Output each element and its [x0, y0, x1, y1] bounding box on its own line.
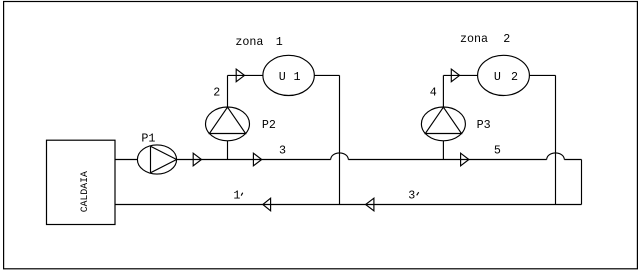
svg-text:U: U [279, 70, 286, 84]
svg-text:P3: P3 [477, 118, 491, 132]
svg-text:4: 4 [430, 85, 437, 99]
svg-text:P1: P1 [141, 131, 155, 145]
arrow zone2 [451, 69, 459, 82]
tick label 1prime [241, 193, 243, 196]
wire riser zone2 upper [442, 75, 444, 107]
svg-text:P2: P2 [262, 118, 276, 132]
bridge crossover 2 [547, 153, 565, 160]
svg-text:CALDAIA: CALDAIA [79, 171, 90, 212]
wire drop zone1 [339, 75, 341, 204]
svg-text:3: 3 [408, 189, 415, 203]
arrow supply 3 [461, 153, 469, 166]
wire zone2 top branch [443, 74, 477, 76]
svg-text:1: 1 [276, 35, 283, 49]
load U1 [263, 55, 314, 95]
wire return line [115, 204, 582, 206]
wire zone1 top branch [228, 74, 263, 76]
pump P2 [206, 107, 250, 141]
bridge crossover 1 [331, 153, 349, 160]
wire riser zone1 lower [227, 141, 229, 160]
svg-text:1: 1 [233, 188, 240, 202]
arrow zone1 [236, 69, 244, 82]
arrow return 2 [366, 198, 374, 211]
wire supply boiler to P1 [115, 159, 137, 161]
svg-text:3: 3 [279, 143, 286, 157]
svg-text:2: 2 [511, 70, 518, 84]
svg-text:U: U [494, 70, 501, 84]
wire right down segment [581, 160, 583, 205]
pump P1 [137, 145, 176, 174]
wire riser zone1 upper [227, 75, 229, 107]
boiler CALDAIA box [47, 140, 116, 224]
svg-text:2: 2 [503, 32, 510, 46]
arrow supply 2 [253, 153, 261, 166]
svg-text:zona: zona [460, 32, 488, 46]
arrow supply 1 [193, 153, 201, 166]
wire supply P1 to bridge 1 [177, 159, 331, 161]
wire supply end [564, 159, 581, 161]
wire drop zone2 [555, 75, 557, 204]
svg-text:zona: zona [235, 35, 263, 49]
svg-text:5: 5 [494, 144, 501, 158]
wire riser zone2 lower [442, 141, 444, 160]
tick label 3prime [417, 192, 419, 195]
svg-text:1: 1 [293, 70, 300, 84]
load U2 [478, 55, 530, 95]
wire U2 to drop [529, 74, 555, 76]
wire U1 to drop [314, 74, 339, 76]
svg-text:2: 2 [213, 85, 220, 99]
pump P3 [421, 107, 465, 141]
arrow return 1 [263, 198, 271, 211]
wire supply bridge1 to bridge2 [348, 159, 546, 161]
